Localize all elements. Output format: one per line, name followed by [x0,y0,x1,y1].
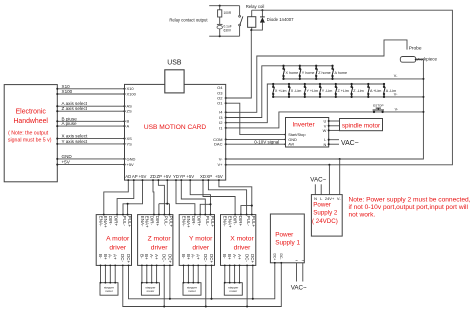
junction V- bus / limit switch return rail [422,96,424,98]
wire YD to Y motor driver [176,180,195,215]
svg-text:Inverter: Inverter [292,121,315,128]
wire inverter L to VAC [329,139,339,141]
wire A- driver A to stepper [109,265,111,282]
junction diode anode on V+ top wire [261,9,263,11]
svg-text:PUL-: PUL- [205,216,210,227]
wire power supply 2 V- to V- rail [339,159,341,195]
svg-text:Y +Lim: Y +Lim [307,89,319,93]
svg-text:DC-: DC- [120,254,125,262]
svg-text:motor: motor [147,289,155,293]
svg-text:Z -Lim: Z -Lim [353,89,363,93]
wire V- rail from card V- pin to right bus [226,60,424,160]
relay contact output circuit top wire [209,5,239,7]
capacitor 0.1uF 630V snubber [219,17,221,24]
wire power supply 1 AC line to VAC [296,263,298,282]
svg-text:not work.: not work. [349,211,376,218]
svg-text:ENA+: ENA+ [103,216,108,228]
svg-text:DC+: DC+ [167,254,172,263]
svg-text:O1: O1 [217,101,223,106]
wire AP to A motor driver [117,180,134,215]
wire DAC to inverter AVI (0-10V signal) [226,143,286,145]
svg-text:B-: B- [98,254,103,259]
svg-text:N: N [314,196,317,201]
svg-text:driver: driver [192,244,209,251]
relay contact output circuit bottom wire [209,35,239,37]
svg-text:A: A [127,124,130,129]
workpiece terminal box [400,57,416,63]
junction DC+ rail driver X [252,298,254,300]
wire DC- driver Y to rail [205,265,207,306]
svg-text:630V: 630V [224,28,232,32]
junction V+ rail to power supply 2 24V+ [328,164,330,166]
svg-text:+5V: +5V [62,160,71,165]
svg-text:X +Lim: X +Lim [275,89,287,93]
svg-text:signal must be 5 v): signal must be 5 v) [8,137,52,143]
switch Y -Lim [319,84,321,87]
svg-text:AD: AD [125,174,131,179]
svg-text:DAC: DAC [214,142,223,147]
wire A+ driver Y to stepper [197,265,199,282]
svg-text:Handwheel: Handwheel [13,118,48,125]
svg-text:Y motor: Y motor [189,236,213,243]
svg-text:ENA-: ENA- [223,216,228,227]
svg-text:USB MOTION CARD: USB MOTION CARD [144,124,207,131]
svg-text:XS: XS [127,136,133,141]
switch Z -Lim [351,84,353,87]
svg-text:VAC~: VAC~ [310,176,326,183]
svg-text:ENA+: ENA+ [145,216,150,228]
junction +5V branch (Z motor driver) [166,203,168,205]
svg-text:ZS: ZS [127,109,132,114]
switch Z home [315,66,317,69]
switch A home [332,66,334,69]
wire GND handwheel to card [57,158,124,160]
svg-text:PUL-: PUL- [246,216,251,227]
wire +5V to Y motor driver [190,180,210,215]
stepper motor Y [183,283,201,296]
wire Z axis select handwheel to card [57,110,124,112]
svg-text:Power: Power [275,231,294,238]
svg-text:VAC~: VAC~ [291,285,307,292]
svg-text:X100: X100 [127,91,137,96]
stepper motor Z [141,283,159,296]
svg-text:A-: A- [108,254,113,259]
svg-text:DC-: DC- [245,254,250,262]
svg-text:B+: B+ [227,254,232,260]
svg-text:Z motor: Z motor [148,236,172,243]
svg-text:ZD: ZD [150,174,156,179]
svg-text:V-: V- [219,156,223,161]
wire A+ driver Z to stepper [156,265,158,282]
wire inverter V to spindle motor [329,125,340,127]
power supply 1 box [270,214,304,263]
power supply 2 box [311,195,342,237]
wire ZP to Z motor driver [158,180,164,215]
wire B piuse handwheel to card [57,120,124,122]
svg-text:PUL+: PUL+ [210,216,215,228]
svg-text:if not 0-10v port,output port,: if not 0-10v port,output port,input port… [349,204,469,211]
svg-text:AP: AP [132,174,138,179]
wire O1 to inverter Start/Stop [226,103,286,134]
svg-text:YS: YS [127,141,133,146]
svg-text:PUL+: PUL+ [251,216,256,228]
svg-text:A+: A+ [196,254,201,260]
wire I4 to probe [226,40,407,112]
svg-text:ZP: ZP [157,174,163,179]
svg-text:YP: YP [179,174,185,179]
svg-text:A +Lim: A +Lim [370,89,381,93]
svg-text:Probe: Probe [409,45,422,51]
svg-text:X home: X home [286,71,299,75]
svg-text:+5V: +5V [186,174,194,179]
svg-text:Z home: Z home [318,71,331,75]
svg-text:DC+: DC+ [126,254,131,263]
svg-text:Supply 1: Supply 1 [275,240,300,247]
svg-text:X100: X100 [62,89,73,94]
junction V- rail to power supply 2 V- [339,158,341,160]
svg-text:DIR-: DIR- [150,216,155,226]
wire +5V handwheel to card [57,164,124,166]
spindle motor box [340,119,383,131]
wire A piuse handwheel to card [57,125,124,127]
svg-text:A-: A- [232,254,237,259]
wire ZD to Z motor driver [152,180,155,215]
svg-text:GND: GND [127,156,136,161]
svg-text:USB: USB [167,60,182,67]
wire A- driver Z to stepper [151,265,153,282]
wire I1 to ESTOP switch [226,112,424,128]
wire DC+ driver Z to rail [169,265,171,298]
svg-text:B+: B+ [186,254,191,260]
stepper motor X [224,283,242,296]
svg-text:+5V: +5V [215,174,223,179]
svg-text:DC-: DC- [279,254,283,260]
svg-text:DIR+: DIR+ [114,216,119,227]
junction relay coil / diode node [250,29,252,31]
wire power supply 2 N to VAC [314,184,316,194]
wire X10 handwheel to card [57,88,124,90]
junction DC- rail driver Y [205,305,207,307]
wire A+ driver X to stepper [239,265,241,282]
wire B+ driver A to stepper [104,265,106,282]
wire limit switch return rail to V- bus [273,96,423,98]
wire power supply 2 24V+ to V+ rail [328,165,330,195]
junction workpiece to V- bus [415,58,417,60]
wire COM to inverter GND [226,138,286,140]
junction power supply 1 DC- pin [280,262,282,264]
switch X home [283,66,285,69]
switch Y home [299,66,301,69]
switch Z +Lim [335,84,337,87]
svg-text:A motor: A motor [106,236,130,243]
switch ESTOP (NC pushbutton) [373,111,375,113]
svg-text:B+: B+ [103,254,108,260]
wire power supply 2 L to VAC [320,184,322,194]
relay contact switch [239,6,241,16]
wire O2 to relay coil [226,31,252,98]
switch A -Lim [383,84,385,87]
relay coil K1 [251,10,253,17]
junction DC+ rail driver Y [210,298,212,300]
svg-text:motor: motor [229,289,237,293]
wire A+ driver A to stepper [114,265,116,282]
junction DC+ rail driver Z [169,298,171,300]
svg-text:Y -Lim: Y -Lim [322,89,333,93]
Z motor driver box [138,215,173,266]
junction +5V branch (X motor driver) [251,205,253,207]
svg-text:driver: driver [234,244,251,251]
svg-text:Z +Lim: Z +Lim [338,89,349,93]
wire V+ net: relay top / right edge / V+ rail to card V+ pin [226,10,453,165]
svg-text:V-: V- [337,196,341,201]
inverter box [286,118,329,148]
svg-text:XD: XD [200,174,206,179]
svg-text:AVI: AVI [288,142,294,147]
svg-text:Relay contact output: Relay contact output [169,18,208,23]
X motor driver box [221,215,256,266]
wire XD to X motor driver [203,180,235,215]
svg-text:DIR+: DIR+ [197,216,202,227]
svg-text:A+: A+ [237,254,242,260]
svg-text:DIR+: DIR+ [155,216,160,227]
svg-text:Electronic: Electronic [16,109,47,116]
junction +5V branch (A motor driver) [127,203,129,205]
wire B+ driver Z to stepper [146,265,148,282]
svg-text:DIR-: DIR- [232,216,237,226]
junction V- bus / ESTOP return rail [422,111,424,113]
svg-text:DC-: DC- [162,254,167,262]
svg-text:ENA-: ENA- [181,216,186,227]
wire inverter N to VAC [329,143,339,145]
wire inverter U to spindle motor [329,120,340,122]
junction snubber bottom [219,35,221,37]
svg-text:PUL+: PUL+ [127,216,132,228]
svg-text:W: W [323,128,327,133]
wire +5V to X motor driver [219,180,252,215]
wire Y axis select handwheel to card [57,143,124,145]
svg-text:+5V: +5V [139,174,147,179]
svg-text:X axis select: X axis select [62,134,89,139]
svg-text:Supply 2: Supply 2 [313,210,338,217]
wire YP to Y motor driver [181,180,205,215]
svg-text:PUL-: PUL- [163,216,168,227]
wire B+ driver X to stepper [229,265,231,282]
svg-text:B-: B- [222,254,227,259]
svg-text:Relay coil: Relay coil [246,4,265,9]
svg-text:PUL+: PUL+ [168,216,173,228]
wire workpiece to V- bus [416,59,424,61]
svg-text:PUL-: PUL- [122,216,127,227]
svg-text:ENA+: ENA+ [186,216,191,228]
wire DC- driver X to rail [246,265,248,306]
switch X -Lim [288,84,290,87]
junction DC- rail driver X [246,305,248,307]
svg-text:( Note: the output: ( Note: the output [8,130,49,136]
junction DC- rail driver Z [163,305,165,307]
svg-text:Note: Power supply 2 must be c: Note: Power supply 2 must be connected, [349,197,471,204]
svg-text:V+: V+ [217,162,223,167]
wire inverter W to spindle motor [329,129,340,131]
switch X +Lim [272,84,274,87]
svg-text:DIR-: DIR- [108,216,113,226]
switch A +Lim [367,84,369,87]
wire B- driver A to stepper [100,265,102,282]
svg-text:+5V: +5V [127,162,135,167]
svg-text:driver: driver [109,244,126,251]
svg-text:A-: A- [191,254,196,259]
svg-text:DC-: DC- [203,254,208,262]
svg-text:24V+: 24V+ [325,196,335,201]
svg-text:driver: driver [151,244,168,251]
wire DC+ driver X to rail [252,265,254,298]
junction snubber top [219,5,221,7]
A motor driver box [96,215,131,266]
svg-text:Z axis select: Z axis select [62,106,88,111]
junction +5V branch (Y motor driver) [209,203,211,205]
wire B- driver X to stepper [224,265,226,282]
wire DC+ rail (drivers to power supply 1) [129,263,275,299]
svg-text:DIR+: DIR+ [238,216,243,227]
svg-text:B-: B- [181,254,186,259]
svg-text:motor: motor [188,289,196,293]
svg-text:B+: B+ [144,254,149,260]
svg-text:DIR-: DIR- [191,216,196,226]
svg-text:~: ~ [295,258,298,263]
svg-text:Y axis select: Y axis select [62,139,88,144]
junction V- bus / home switch return rail [422,78,424,80]
diode D1 1n4007 [261,10,263,17]
svg-text:0-10V signal: 0-10V signal [254,139,279,144]
wire B- driver Z to stepper [141,265,143,282]
svg-text:Power: Power [313,202,331,209]
Y motor driver box [179,215,214,266]
wire DC+ driver Y to rail [211,265,213,298]
svg-text:DC+: DC+ [250,254,255,263]
svg-text:N: N [323,142,326,147]
svg-text:ESTOP: ESTOP [373,103,383,107]
svg-text:A piuse: A piuse [62,121,78,126]
wire A axis select handwheel to card [57,105,124,107]
wire +5V to Z motor driver [166,180,168,204]
wire B- driver Y to stepper [183,265,185,282]
svg-text:ENA-: ENA- [98,216,103,227]
wire X axis select handwheel to card [57,138,124,140]
svg-text:( 24VDC): ( 24VDC) [312,218,338,225]
svg-text:VAC~: VAC~ [341,140,359,147]
svg-text:A-: A- [149,254,154,259]
switch Y +Lim [304,84,306,87]
wire X100 handwheel to card [57,93,124,95]
svg-text:ENA-: ENA- [140,216,145,227]
svg-text:A home: A home [335,71,348,75]
svg-text:GND: GND [62,154,73,159]
svg-text:ENA+: ENA+ [227,216,232,228]
svg-text:A+: A+ [154,254,159,260]
USB connector [165,70,184,93]
svg-text:B-: B- [139,254,144,259]
svg-text:DC+: DC+ [209,254,214,263]
wire XP to X motor driver [208,180,246,215]
svg-text:DC+: DC+ [273,254,277,261]
svg-text:workpiece: workpiece [417,56,438,61]
wire B+ driver Y to stepper [187,265,189,282]
wire +5V to A motor driver [123,180,143,215]
svg-text:Diode 1n4007: Diode 1n4007 [267,17,294,22]
svg-text:X motor: X motor [230,236,254,243]
wire home switch return rail to V- bus [284,78,424,80]
electronic handwheel box [4,85,57,182]
svg-text:Y home: Y home [302,71,315,75]
wire DC- driver Z to rail [163,265,165,306]
wire DC- rail (drivers to power supply 1) [123,263,281,307]
svg-text:spindle motor: spindle motor [342,123,381,130]
svg-text:XP: XP [206,174,212,179]
stepper motor A [100,283,118,296]
wire I2 to limit switch rail [226,84,384,123]
wire AD to A motor driver [104,180,129,215]
svg-text:YD: YD [173,174,179,179]
svg-text:100R: 100R [224,11,232,15]
USB MOTION CARD box [125,84,226,180]
junction power supply 1 DC+ pin [274,262,276,264]
wire power supply 1 AC neutral to VAC [302,263,304,282]
svg-text:+5V: +5V [163,174,171,179]
wire I3 to home switch rail [226,66,333,118]
svg-text:A+: A+ [113,254,118,260]
svg-text:motor: motor [105,289,113,293]
wire card V+ pin junction [225,164,227,166]
resistor 100R snubber [219,6,221,10]
svg-text:X -Lim: X -Lim [291,89,302,93]
svg-text:~: ~ [301,258,304,263]
wire A- driver X to stepper [234,265,236,282]
wire A- driver Y to stepper [192,265,194,282]
